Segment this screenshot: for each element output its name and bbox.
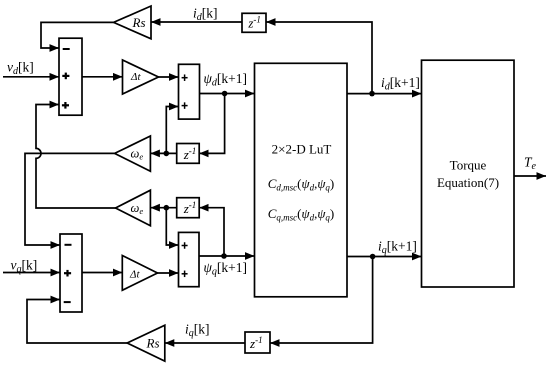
svg-text:2×2-D LuT: 2×2-D LuT	[272, 142, 332, 157]
svg-text:vd[k]: vd[k]	[7, 60, 34, 78]
svg-text:id[k+1]: id[k+1]	[381, 75, 420, 93]
svg-text:vq[k]: vq[k]	[11, 258, 38, 276]
svg-text:iq[k]: iq[k]	[185, 322, 210, 340]
svg-text:Equation(7): Equation(7)	[437, 175, 499, 190]
svg-text:Rs: Rs	[132, 15, 146, 30]
svg-text:Te: Te	[524, 155, 537, 173]
svg-text:Rs: Rs	[146, 336, 160, 351]
svg-text:ψd[k+1]: ψd[k+1]	[204, 71, 248, 89]
svg-text:iq[k+1]: iq[k+1]	[378, 239, 417, 257]
svg-text:Δt: Δt	[130, 71, 141, 83]
svg-text:id[k]: id[k]	[193, 6, 218, 24]
svg-text:Δt: Δt	[129, 269, 140, 281]
svg-text:ψq[k+1]: ψq[k+1]	[204, 260, 248, 278]
svg-text:Torque: Torque	[450, 158, 487, 173]
